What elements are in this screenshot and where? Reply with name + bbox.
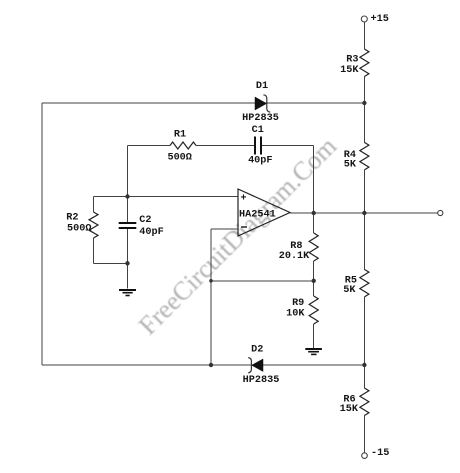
- node junction R8/R9: [312, 279, 316, 283]
- ground (R9 net): [305, 349, 322, 354]
- wire output node vertical (C1/R8 branch): [313, 146, 315, 349]
- resistor R9 10K: [309, 296, 318, 324]
- diode D1 HP2835: [255, 95, 270, 112]
- svg-text:C2: C2: [139, 215, 151, 226]
- wire -input line: [211, 228, 238, 230]
- wire R1-C1 feedback branch: [128, 145, 314, 147]
- node junction rail/D2: [362, 363, 366, 367]
- wire left outer vertical: [41, 103, 43, 365]
- svg-text:40pF: 40pF: [248, 155, 272, 166]
- wire output line: [290, 212, 438, 214]
- capacitor C1 40pF: [255, 137, 261, 155]
- op-amp U1 HA2541: [238, 189, 290, 236]
- wire vertical from R1 left to +input node: [127, 146, 129, 197]
- svg-text:5K: 5K: [343, 285, 356, 296]
- svg-text:R1: R1: [174, 129, 186, 140]
- node junction rail/D1: [362, 101, 366, 105]
- svg-text:40pF: 40pF: [139, 227, 163, 238]
- resistor R5 5K: [360, 269, 369, 297]
- diode D2 HP2835: [248, 358, 263, 373]
- resistor R3 15K: [360, 49, 369, 77]
- svg-text:D2: D2: [251, 345, 263, 356]
- svg-text:20.1K: 20.1K: [279, 251, 310, 262]
- resistor R8 20.1K: [309, 233, 318, 261]
- terminal +15: [361, 16, 367, 22]
- svg-text:HP2835: HP2835: [243, 375, 280, 386]
- svg-text:C1: C1: [252, 125, 264, 136]
- resistor R6 15K: [360, 388, 369, 416]
- svg-text:10K: 10K: [286, 309, 305, 320]
- ground (C2 net): [119, 290, 136, 296]
- svg-text:-15: -15: [371, 448, 389, 459]
- svg-text:HA2541: HA2541: [239, 209, 276, 220]
- resistor R2 500ohm: [89, 212, 98, 238]
- node junction R2/C2 bottom: [125, 261, 129, 265]
- node junction +input/C2 top: [125, 194, 129, 198]
- svg-text:R2: R2: [66, 213, 78, 224]
- wire top feedback line: [42, 102, 365, 104]
- op-amp triangle body: [238, 189, 290, 236]
- wire -input node vertical: [210, 229, 212, 365]
- svg-text:500Ω: 500Ω: [67, 223, 91, 234]
- node junction output/C1 branch: [312, 211, 316, 215]
- wire bottom feedback line (D2 net): [42, 364, 365, 366]
- svg-text:D1: D1: [256, 81, 268, 92]
- svg-text:15K: 15K: [340, 65, 359, 76]
- resistor R4 5K: [360, 142, 369, 170]
- svg-text:R3: R3: [346, 55, 358, 66]
- node junction inverting input/D2 line: [209, 363, 213, 367]
- resistor R1 500ohm: [170, 142, 196, 149]
- svg-text:5K: 5K: [344, 160, 357, 171]
- wire +input line: [94, 196, 239, 198]
- node junction rail/output: [362, 211, 366, 215]
- svg-text:500Ω: 500Ω: [167, 153, 191, 164]
- capacitor C2 40pF: [119, 223, 137, 228]
- wire C2 branch: [127, 197, 129, 289]
- terminal output: [438, 210, 443, 215]
- svg-text:R9: R9: [292, 298, 304, 309]
- wire R2 branch: [94, 197, 128, 264]
- node junction inverting input/R8 line: [209, 279, 213, 283]
- pin - (inverting input): [241, 226, 247, 228]
- wire R8/R9 junction line: [211, 280, 314, 282]
- svg-text:HP2835: HP2835: [242, 113, 279, 124]
- svg-text:+: +: [241, 194, 247, 205]
- svg-text:+15: +15: [371, 14, 389, 25]
- svg-text:15K: 15K: [340, 404, 359, 415]
- wire right supply rail segments: [363, 22, 365, 453]
- terminal -15: [362, 453, 368, 459]
